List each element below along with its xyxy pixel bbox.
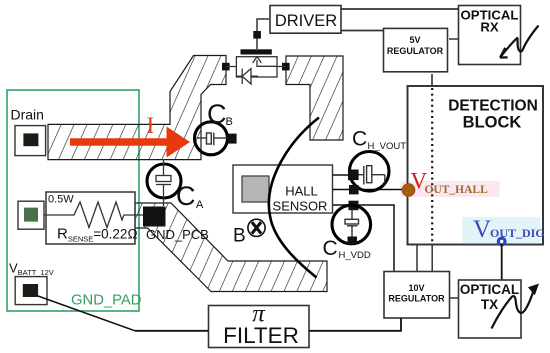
node VOUT_HALL xyxy=(402,184,415,197)
transistor Q1 body xyxy=(236,57,277,77)
wire pi filter to 10v regulator xyxy=(309,318,401,331)
highlight vout_hall xyxy=(401,181,500,197)
wire VBATT to pi filter (diagonal) xyxy=(38,296,135,331)
pad GND_PCB (black) xyxy=(143,207,166,227)
pad VBATT_12V (inner) xyxy=(23,284,38,297)
capacitor CH_VOUT symbol xyxy=(357,166,385,185)
svg-text:REGULATOR: REGULATOR xyxy=(387,46,444,56)
block OPTICAL RX xyxy=(459,6,521,65)
highlight vout_dig xyxy=(462,217,541,243)
svg-text:SENSOR: SENSOR xyxy=(273,199,328,214)
svg-text:10V: 10V xyxy=(408,283,424,293)
capacitor CH_VOUT circle xyxy=(349,152,389,192)
svg-text:REGULATOR: REGULATOR xyxy=(388,294,445,304)
wire hall vdd xyxy=(333,205,395,272)
source copper block (hatched, right of transistor) xyxy=(286,56,343,140)
block OPTICAL TX xyxy=(459,280,522,338)
block pi FILTER xyxy=(209,306,310,348)
optical rx signal arrow xyxy=(500,26,538,58)
svg-text:H_VDD: H_VDD xyxy=(339,250,371,261)
via source left xyxy=(222,63,230,71)
svg-text:Drain: Drain xyxy=(11,107,44,123)
pad on vout line xyxy=(349,185,359,194)
wire 5v regulator to detection block xyxy=(431,74,433,87)
pad CH_VDD top xyxy=(349,201,359,211)
svg-text:C: C xyxy=(352,128,367,151)
svg-text:B: B xyxy=(226,116,233,128)
current arrow I (red) xyxy=(70,127,190,158)
svg-text:TX: TX xyxy=(481,297,498,312)
wire vout_dig to optical tx xyxy=(501,244,503,280)
svg-text:0.5W: 0.5W xyxy=(48,194,74,206)
svg-text:I: I xyxy=(147,113,155,138)
svg-text:5V: 5V xyxy=(409,35,420,45)
block HALL SENSOR xyxy=(233,165,333,213)
capacitor CA symbol xyxy=(156,159,171,206)
svg-text:C: C xyxy=(176,181,196,211)
pad Drain (outline) xyxy=(15,126,46,156)
svg-text:FILTER: FILTER xyxy=(223,323,299,348)
block DETECTION BLOCK xyxy=(408,86,544,245)
wire detection to 10v regulator (left) xyxy=(416,245,418,272)
svg-text:C: C xyxy=(323,237,338,260)
svg-text:GND_PAD: GND_PAD xyxy=(71,292,141,308)
svg-text:BLOCK: BLOCK xyxy=(463,114,522,132)
pad Drain (inner) xyxy=(23,133,38,146)
wire vbatt to pi filter xyxy=(135,330,209,332)
block 10V REGULATOR xyxy=(384,272,450,319)
svg-text:DETECTION: DETECTION xyxy=(448,98,538,115)
capacitor CA circle xyxy=(147,164,181,198)
svg-text:OPTICAL: OPTICAL xyxy=(460,282,519,297)
pad CB right xyxy=(227,134,236,144)
pad CH_VDD bottom xyxy=(348,237,358,245)
wire driver to gate xyxy=(257,19,269,49)
resistor RSENSE zigzag xyxy=(44,202,145,228)
svg-text:RX: RX xyxy=(480,20,499,35)
body diode D1 xyxy=(237,69,258,84)
capacitor CB symbol xyxy=(197,133,228,146)
ground plane GND_PAD outline (green box) xyxy=(7,90,139,311)
transistor Q1 gate bar xyxy=(241,49,272,54)
wire right via xyxy=(277,66,286,68)
svg-text:B: B xyxy=(233,226,246,247)
wire driver to 5v regulator xyxy=(341,30,384,32)
svg-text:OUT_HALL: OUT_HALL xyxy=(425,184,489,196)
big magnetic field curve xyxy=(269,118,319,278)
wire detection to 10v regulator (right) xyxy=(431,245,433,272)
capacitor CB circle xyxy=(195,122,228,155)
pad CH_VOUT in xyxy=(348,170,359,181)
pad VBATT_12V (outline) xyxy=(15,277,47,305)
wire hall out to vout_hall node xyxy=(333,189,406,191)
capacitor CH_VDD circle xyxy=(332,205,371,244)
via gate xyxy=(253,31,261,39)
svg-text:H_VOUT: H_VOUT xyxy=(368,141,407,152)
pad Kelvin sense (outline) xyxy=(18,201,44,229)
wire 10v regulator to optical tx xyxy=(450,297,459,299)
svg-text:V: V xyxy=(473,216,491,243)
hall sensor die (gray) xyxy=(242,176,269,202)
transistor Q1 arrow xyxy=(257,60,277,66)
svg-text:C: C xyxy=(207,99,227,129)
svg-text:DRIVER: DRIVER xyxy=(275,12,337,30)
wire left via xyxy=(226,66,236,68)
optical tx signal arrow xyxy=(492,291,534,329)
capacitor CH_VDD symbol xyxy=(345,209,359,237)
dotted line inside detection block xyxy=(431,88,433,244)
wire 5v regulator to optical rx xyxy=(449,38,459,40)
svg-text:HALL: HALL xyxy=(285,184,318,199)
block 5V REGULATOR xyxy=(384,28,448,71)
via source right xyxy=(282,63,290,71)
resistor RSENSE box xyxy=(46,192,135,244)
svg-text:A: A xyxy=(196,199,204,211)
ground return trace (hatched, bottom) xyxy=(135,203,327,292)
pad Kelvin sense (green inner) xyxy=(24,208,38,222)
block DRIVER xyxy=(270,6,341,34)
wire hall vout to cap xyxy=(333,174,351,176)
field into page symbol xyxy=(248,219,265,236)
svg-text:OUT_DIG: OUT_DIG xyxy=(490,226,545,240)
wire driver to optical rx xyxy=(341,8,459,10)
drain microstrip trace (hatched) xyxy=(48,56,226,160)
node VOUT_DIG xyxy=(497,237,507,247)
svg-text:GND_PCB: GND_PCB xyxy=(146,227,209,242)
